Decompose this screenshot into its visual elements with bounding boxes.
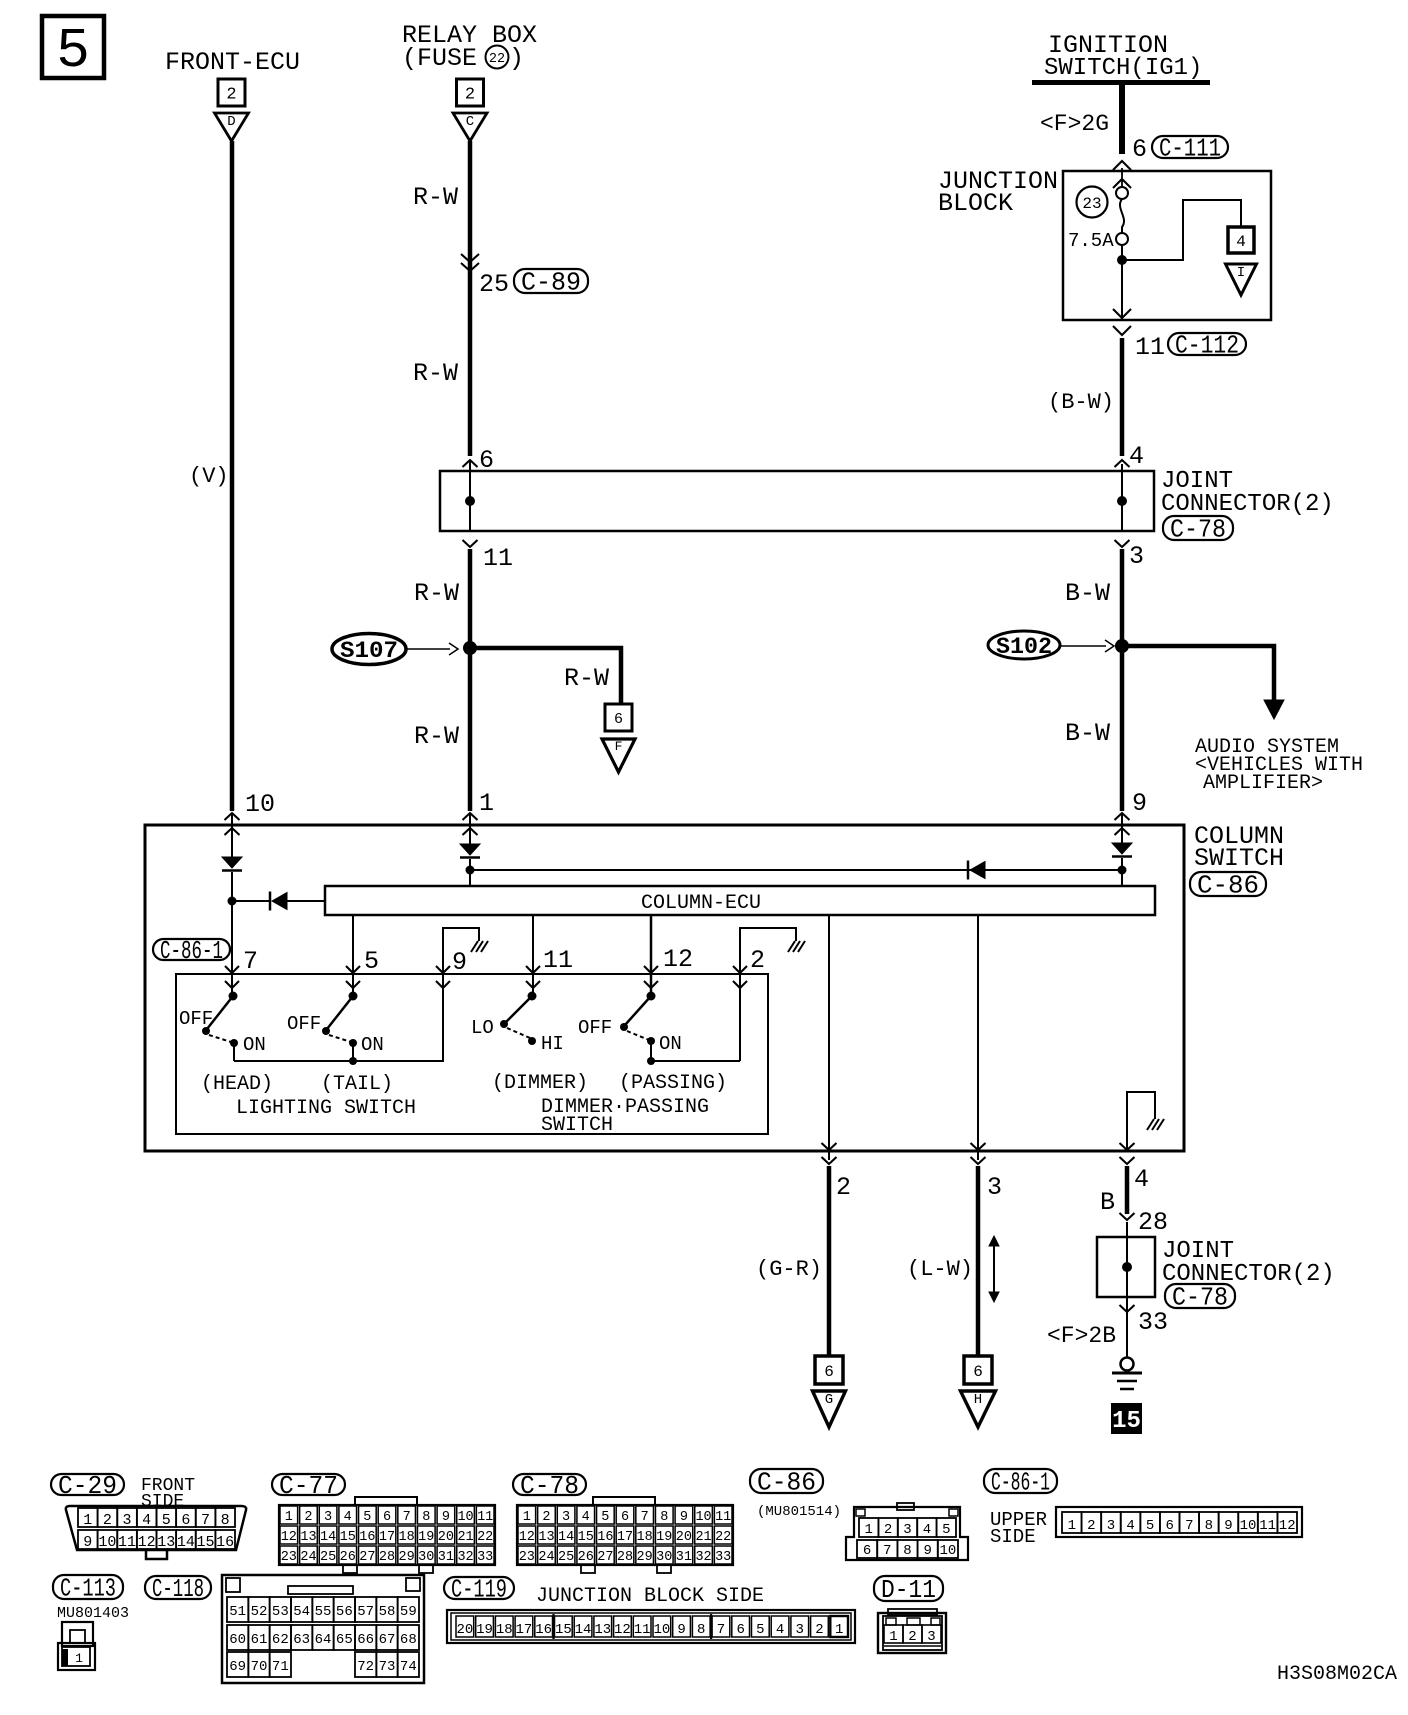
- ground bracket pin 4: [1127, 1092, 1155, 1151]
- svg-text:8: 8: [221, 1512, 230, 1529]
- label D-11: [874, 1576, 943, 1601]
- svg-text:ON: ON: [243, 1034, 266, 1056]
- svg-text:4: 4: [142, 1512, 151, 1529]
- wire B-W junction block to joint connector: [1120, 338, 1125, 456]
- svg-text:1: 1: [835, 1622, 843, 1638]
- svg-text:26: 26: [578, 1550, 594, 1565]
- arrow chevrons out pin4: [1120, 1143, 1135, 1150]
- arrow S102 to junction: [1060, 645, 1106, 647]
- svg-text:6: 6: [621, 1510, 629, 1525]
- svg-text:62: 62: [272, 1632, 289, 1648]
- svg-text:12: 12: [519, 1530, 535, 1545]
- connector C-118 pinout: [222, 1575, 424, 1683]
- arrowhead to audio system: [1264, 700, 1284, 719]
- passing switch lever: [625, 996, 651, 1025]
- svg-text:OFF: OFF: [179, 1008, 213, 1030]
- svg-text:ON: ON: [361, 1034, 384, 1056]
- svg-text:13: 13: [538, 1530, 554, 1545]
- svg-text:56: 56: [336, 1604, 353, 1620]
- wire pin9 bracket to rail: [442, 936, 444, 1061]
- svg-text:(TAIL): (TAIL): [321, 1073, 393, 1096]
- svg-text:B: B: [1100, 1188, 1115, 1217]
- dimmer dashed to HI: [507, 1028, 530, 1038]
- svg-text:10: 10: [98, 1534, 116, 1551]
- svg-text:(DIMMER): (DIMMER): [492, 1072, 588, 1095]
- svg-text:C-78: C-78: [1170, 515, 1226, 545]
- svg-text:11: 11: [1135, 333, 1165, 362]
- wire pin12: [650, 915, 653, 996]
- svg-text:10: 10: [695, 1510, 711, 1525]
- svg-text:20: 20: [676, 1530, 692, 1545]
- ground reference box 15: [1111, 1403, 1142, 1434]
- dimmer LO contact: [500, 1020, 508, 1028]
- dimmer switch common: [528, 992, 537, 1001]
- svg-text:14: 14: [177, 1534, 195, 1551]
- svg-text:4: 4: [923, 1522, 931, 1538]
- svg-text:HI: HI: [541, 1033, 564, 1055]
- switch rail to pin9: [234, 1060, 444, 1062]
- terminal triangle G: [813, 1391, 846, 1427]
- svg-text:5: 5: [1146, 1518, 1154, 1534]
- svg-text:3: 3: [123, 1512, 132, 1529]
- arrow chevron into joint connector left: [463, 460, 478, 467]
- arrow chevrons out pin2: [822, 1143, 837, 1150]
- chassis ground pin9: [471, 941, 478, 952]
- svg-text:15: 15: [555, 1622, 572, 1638]
- wire pin10 into switch: [231, 813, 233, 857]
- wire R-W S107 to column switch: [468, 648, 473, 811]
- svg-text:6: 6: [1166, 1518, 1174, 1534]
- svg-text:11: 11: [543, 946, 573, 975]
- svg-text:59: 59: [400, 1604, 417, 1620]
- joint connector (2) box lower: [1097, 1237, 1155, 1297]
- svg-text:S107: S107: [340, 638, 398, 664]
- svg-text:3: 3: [927, 1629, 935, 1645]
- svg-text:10: 10: [653, 1622, 670, 1638]
- svg-text:F: F: [615, 739, 623, 754]
- svg-text:20: 20: [456, 1622, 473, 1638]
- junction node pin1: [466, 866, 475, 875]
- svg-text:51: 51: [229, 1604, 246, 1620]
- wire B output: [1125, 1166, 1130, 1214]
- label C-29: [51, 1474, 124, 1495]
- wire R-W joint connector to S107: [468, 549, 473, 648]
- svg-text:(FUSE: (FUSE: [402, 44, 477, 73]
- svg-text:7: 7: [641, 1510, 649, 1525]
- wire pin2 bracket to rail: [739, 936, 741, 1061]
- head switch OFF contact: [202, 1027, 210, 1035]
- svg-text:SIDE: SIDE: [990, 1526, 1036, 1548]
- svg-text:31: 31: [676, 1550, 692, 1565]
- svg-text:16: 16: [216, 1534, 234, 1551]
- tail switch ON contact: [349, 1039, 357, 1047]
- svg-text:9: 9: [1132, 789, 1147, 818]
- svg-text:4: 4: [344, 1510, 352, 1525]
- wire column-ecu to pin7: [231, 995, 233, 997]
- label C-113: [53, 1575, 123, 1599]
- svg-text:23: 23: [519, 1550, 535, 1565]
- svg-text:3: 3: [987, 1173, 1002, 1202]
- COLUMN-ECU box: [325, 886, 1155, 915]
- svg-text:10: 10: [245, 790, 275, 819]
- svg-text:3: 3: [903, 1522, 911, 1538]
- svg-text:2: 2: [836, 1173, 851, 1202]
- wire column-ecu pin3 output: [977, 915, 979, 1160]
- wire pin5: [352, 915, 354, 996]
- label C-86-1: [153, 939, 230, 960]
- connector C-77 pinout: [355, 1497, 417, 1505]
- svg-text:4: 4: [1134, 1165, 1149, 1194]
- svg-text:9: 9: [452, 948, 467, 977]
- splice S107: [332, 634, 406, 665]
- svg-text:29: 29: [399, 1550, 415, 1565]
- connector C-29 pinout: [66, 1506, 246, 1550]
- svg-text:5: 5: [601, 1510, 609, 1525]
- svg-text:25: 25: [320, 1550, 336, 1565]
- svg-text:C-29: C-29: [58, 1471, 117, 1501]
- svg-text:10: 10: [457, 1510, 473, 1525]
- passing switch common: [647, 992, 656, 1001]
- svg-text:53: 53: [272, 1604, 289, 1620]
- svg-text:1: 1: [889, 1629, 897, 1645]
- svg-text:5: 5: [364, 947, 379, 976]
- svg-text:9: 9: [83, 1534, 92, 1551]
- svg-text:1: 1: [1068, 1518, 1076, 1534]
- terminal box 4 (junction block): [1228, 227, 1254, 253]
- svg-text:G: G: [825, 1392, 833, 1408]
- junction node pin10: [228, 897, 237, 906]
- dimmer switch lever: [506, 996, 532, 1022]
- tail switch OFF contact: [322, 1027, 330, 1035]
- svg-text:12: 12: [281, 1530, 297, 1545]
- svg-text:66: 66: [357, 1632, 374, 1648]
- ground symbol: [1121, 1358, 1134, 1371]
- svg-text:2: 2: [750, 946, 765, 975]
- svg-text:OFF: OFF: [578, 1017, 612, 1039]
- chassis ground pin2: [788, 941, 795, 952]
- rail passing to pin2: [651, 1060, 740, 1062]
- arrow chevrons pin2sw: [733, 966, 747, 973]
- svg-text:(MU801514): (MU801514): [757, 1504, 841, 1520]
- arrow chevrons out pin3: [971, 1143, 986, 1150]
- svg-text:2: 2: [465, 86, 475, 105]
- connector C-86 pinout: [846, 1507, 968, 1560]
- svg-text:4: 4: [582, 1510, 590, 1525]
- svg-text:10: 10: [939, 1543, 956, 1559]
- wire node1 to column-ecu: [469, 859, 471, 886]
- svg-text:7: 7: [403, 1510, 411, 1525]
- svg-text:2: 2: [103, 1512, 112, 1529]
- svg-text:R-W: R-W: [414, 722, 459, 751]
- svg-text:8: 8: [903, 1543, 911, 1559]
- wire diode to column-ecu: [287, 900, 325, 902]
- svg-text:H: H: [974, 1392, 982, 1408]
- svg-text:12: 12: [663, 945, 693, 974]
- wire B-W S102 to column switch: [1120, 646, 1125, 811]
- terminal triangle F: [602, 739, 635, 772]
- arrow chevrons pin 10: [225, 813, 240, 820]
- svg-text:(PASSING): (PASSING): [619, 1072, 727, 1095]
- arrow chevrons pin5: [346, 966, 360, 973]
- svg-text:MU801403: MU801403: [57, 1605, 129, 1622]
- wire R-W relay box to joint connector: [468, 141, 473, 456]
- svg-text:6: 6: [614, 711, 623, 728]
- svg-text:6: 6: [973, 1363, 983, 1381]
- wire node to diode left: [232, 900, 270, 902]
- svg-text:R-W: R-W: [413, 183, 458, 212]
- terminal box 2 (FRONT-ECU pin D): [218, 79, 245, 106]
- svg-text:4: 4: [1236, 233, 1246, 251]
- svg-text:27: 27: [359, 1550, 375, 1565]
- arrow chevrons pin 9: [1115, 813, 1130, 820]
- svg-text:29: 29: [637, 1550, 653, 1565]
- svg-text:64: 64: [315, 1632, 332, 1648]
- svg-text:60: 60: [229, 1632, 246, 1648]
- wire branch to audio system: [1122, 646, 1274, 701]
- svg-text:2: 2: [815, 1622, 823, 1638]
- svg-text:1: 1: [285, 1510, 293, 1525]
- svg-text:C-113: C-113: [60, 1574, 116, 1604]
- svg-text:C-78: C-78: [1172, 1283, 1228, 1313]
- head switch common: [229, 992, 238, 1001]
- svg-text:3: 3: [1129, 542, 1144, 571]
- diode pin 10: [222, 857, 242, 868]
- svg-text:16: 16: [597, 1530, 613, 1545]
- svg-text:3: 3: [796, 1622, 804, 1638]
- connector C-86-1 pinout: [1056, 1507, 1302, 1537]
- svg-text:2: 2: [542, 1510, 550, 1525]
- svg-text:65: 65: [336, 1632, 353, 1648]
- label C-77: [272, 1474, 345, 1495]
- wire node to head switch: [231, 901, 233, 996]
- svg-text:B-W: B-W: [1065, 579, 1110, 608]
- svg-text:24: 24: [538, 1550, 554, 1565]
- passing ON leg: [650, 1041, 652, 1061]
- svg-text:16: 16: [359, 1530, 375, 1545]
- svg-text:11: 11: [118, 1534, 136, 1551]
- svg-text:22: 22: [715, 1530, 731, 1545]
- svg-text:BLOCK: BLOCK: [938, 189, 1013, 218]
- arrow chevrons out of junction block: [1113, 309, 1131, 318]
- svg-text:11: 11: [477, 1510, 493, 1525]
- fuse 7.5A symbol: [1121, 168, 1123, 187]
- svg-text:SWITCH(IG1): SWITCH(IG1): [1044, 55, 1202, 82]
- svg-text:55: 55: [315, 1604, 332, 1620]
- arrow chevrons into junction block: [1113, 161, 1131, 170]
- wire diode to node: [231, 872, 233, 901]
- lighting/dimmer switch box: [176, 974, 768, 1134]
- svg-text:15: 15: [197, 1534, 215, 1551]
- svg-text:2: 2: [226, 86, 236, 105]
- arrow chevron below joint connector left: [463, 540, 478, 547]
- svg-text:68: 68: [400, 1632, 417, 1648]
- terminal triangle C: [453, 113, 487, 141]
- svg-text:17: 17: [516, 1622, 533, 1638]
- svg-text:1: 1: [479, 789, 494, 818]
- label C-78 bottom: [513, 1474, 586, 1495]
- svg-text:6: 6: [736, 1622, 744, 1638]
- svg-text:3: 3: [1107, 1518, 1115, 1534]
- wire branch R-W to terminal F: [470, 648, 621, 704]
- svg-text:C-111: C-111: [1159, 134, 1221, 164]
- svg-text:57: 57: [357, 1604, 374, 1620]
- svg-text:26: 26: [340, 1550, 356, 1565]
- wire node9 to column-ecu: [1121, 858, 1123, 886]
- svg-text:73: 73: [379, 1659, 396, 1675]
- diode pin 1: [460, 844, 480, 855]
- svg-text:18: 18: [496, 1622, 513, 1638]
- svg-text:(V): (V): [189, 464, 229, 489]
- svg-text:4: 4: [1129, 442, 1144, 471]
- svg-text:11: 11: [634, 1622, 651, 1638]
- svg-text:19: 19: [476, 1622, 493, 1638]
- tail ON leg: [352, 1043, 354, 1061]
- svg-text:<F>2G: <F>2G: [1040, 111, 1109, 137]
- svg-text:30: 30: [656, 1550, 672, 1565]
- svg-text:15: 15: [578, 1530, 594, 1545]
- wire B-W joint connector to S102: [1120, 549, 1125, 645]
- svg-text:9: 9: [442, 1510, 450, 1525]
- junction dot S102: [1115, 639, 1129, 653]
- wire to ground: [1126, 1297, 1128, 1358]
- svg-text:54: 54: [293, 1604, 310, 1620]
- svg-text:R-W: R-W: [414, 579, 459, 608]
- head switch dashed to ON: [209, 1035, 231, 1042]
- tail switch dashed to ON: [329, 1035, 351, 1042]
- svg-text:58: 58: [379, 1604, 396, 1620]
- svg-text:22: 22: [477, 1530, 493, 1545]
- svg-text:OFF: OFF: [287, 1013, 321, 1035]
- svg-text:): ): [509, 44, 524, 73]
- terminal box 6 (F): [605, 704, 632, 731]
- wire pin11: [532, 915, 534, 996]
- svg-text:70: 70: [251, 1659, 268, 1675]
- junction dot joint connector 2: [1122, 1262, 1132, 1272]
- arrow chevrons pin 1: [463, 813, 478, 820]
- svg-text:I: I: [1237, 265, 1245, 281]
- connector D-11 pinout: [888, 1609, 937, 1615]
- svg-text:28: 28: [1138, 1208, 1168, 1237]
- svg-text:24: 24: [300, 1550, 316, 1565]
- svg-text:9: 9: [1224, 1518, 1232, 1534]
- svg-text:6: 6: [1132, 135, 1147, 164]
- wire B-W ignition to junction block: [1119, 82, 1125, 154]
- svg-text:C-86-1: C-86-1: [991, 1468, 1050, 1498]
- svg-text:SWITCH: SWITCH: [1194, 844, 1284, 873]
- splice S102: [988, 631, 1060, 659]
- svg-text:19: 19: [418, 1530, 434, 1545]
- svg-text:25: 25: [558, 1550, 574, 1565]
- svg-text:<F>2B: <F>2B: [1047, 1323, 1116, 1349]
- arrow chevrons pin7: [225, 966, 239, 973]
- junction node in junction block: [1117, 255, 1127, 265]
- svg-text:7: 7: [201, 1512, 210, 1529]
- column switch box: [145, 825, 1184, 1151]
- svg-text:21: 21: [695, 1530, 711, 1545]
- tail switch common: [349, 992, 358, 1001]
- wire through joint connector right: [1121, 464, 1123, 531]
- connector C-119 pinout: [447, 1610, 855, 1643]
- svg-text:12: 12: [614, 1622, 631, 1638]
- svg-text:11: 11: [1259, 1518, 1276, 1534]
- svg-text:18: 18: [637, 1530, 653, 1545]
- svg-text:71: 71: [272, 1659, 289, 1675]
- passing ON contact: [647, 1037, 655, 1045]
- svg-text:33: 33: [1138, 1308, 1168, 1337]
- svg-text:25: 25: [479, 270, 509, 299]
- wire through joint connector 2: [1126, 1237, 1128, 1297]
- svg-text:10: 10: [1240, 1518, 1257, 1534]
- ground bracket pin 9 switch: [443, 928, 479, 941]
- svg-text:B-W: B-W: [1065, 719, 1110, 748]
- wire pin9 into switch: [1121, 813, 1123, 843]
- dimmer HI contact: [528, 1037, 536, 1045]
- bus wire pin1 node to pin9 node: [470, 869, 1122, 871]
- wire column-ecu pin2 output: [828, 915, 830, 1160]
- svg-text:(L-W): (L-W): [907, 1257, 973, 1282]
- terminal triangle D: [215, 113, 249, 141]
- svg-text:7: 7: [883, 1543, 891, 1559]
- svg-text:S102: S102: [996, 634, 1052, 660]
- svg-text:28: 28: [617, 1550, 633, 1565]
- circled 23 (fuse number): [1077, 187, 1108, 218]
- svg-text:23: 23: [1082, 195, 1101, 213]
- svg-text:15: 15: [340, 1530, 356, 1545]
- svg-text:28: 28: [379, 1550, 395, 1565]
- svg-text:5: 5: [756, 1622, 764, 1638]
- svg-text:C-89: C-89: [521, 268, 581, 298]
- svg-text:9: 9: [677, 1622, 685, 1638]
- svg-text:18: 18: [399, 1530, 415, 1545]
- svg-text:14: 14: [558, 1530, 574, 1545]
- svg-text:67: 67: [379, 1632, 396, 1648]
- svg-text:2: 2: [908, 1629, 916, 1645]
- svg-text:19: 19: [656, 1530, 672, 1545]
- terminal triangle H: [961, 1391, 996, 1427]
- svg-text:4: 4: [1126, 1518, 1134, 1534]
- svg-text:7: 7: [717, 1622, 725, 1638]
- tail rail junction dot: [349, 1057, 357, 1065]
- passing rail junction dot: [647, 1057, 655, 1065]
- svg-text:D-11: D-11: [881, 1575, 936, 1605]
- svg-text:C-77: C-77: [279, 1471, 338, 1501]
- svg-text:7.5A: 7.5A: [1068, 230, 1114, 252]
- svg-text:R-W: R-W: [413, 359, 458, 388]
- arrow chevrons on R-W wire: [461, 254, 479, 262]
- head switch ON contact: [230, 1039, 238, 1047]
- wire fuse to junction node: [1121, 245, 1123, 320]
- svg-text:8: 8: [697, 1622, 705, 1638]
- arrow chevron wire B: [1120, 1213, 1135, 1220]
- label C-119: [444, 1577, 514, 1599]
- svg-text:74: 74: [400, 1659, 417, 1675]
- svg-text:12: 12: [1279, 1518, 1296, 1534]
- svg-text:D: D: [227, 114, 235, 130]
- svg-text:SIDE: SIDE: [141, 1492, 184, 1512]
- label C-86 bottom: [750, 1469, 823, 1493]
- diode pin 9: [1112, 843, 1132, 854]
- page number box 5: [42, 16, 104, 78]
- svg-text:1: 1: [864, 1522, 872, 1538]
- svg-text:7: 7: [243, 947, 258, 976]
- svg-text:1: 1: [523, 1510, 531, 1525]
- wire pin1 into switch: [469, 813, 471, 844]
- terminal box 2 (RELAY BOX pin C): [457, 79, 484, 106]
- svg-text:8: 8: [422, 1510, 430, 1525]
- svg-text:1: 1: [83, 1512, 92, 1529]
- svg-text:C-86: C-86: [757, 1468, 816, 1498]
- svg-text:6: 6: [863, 1543, 871, 1559]
